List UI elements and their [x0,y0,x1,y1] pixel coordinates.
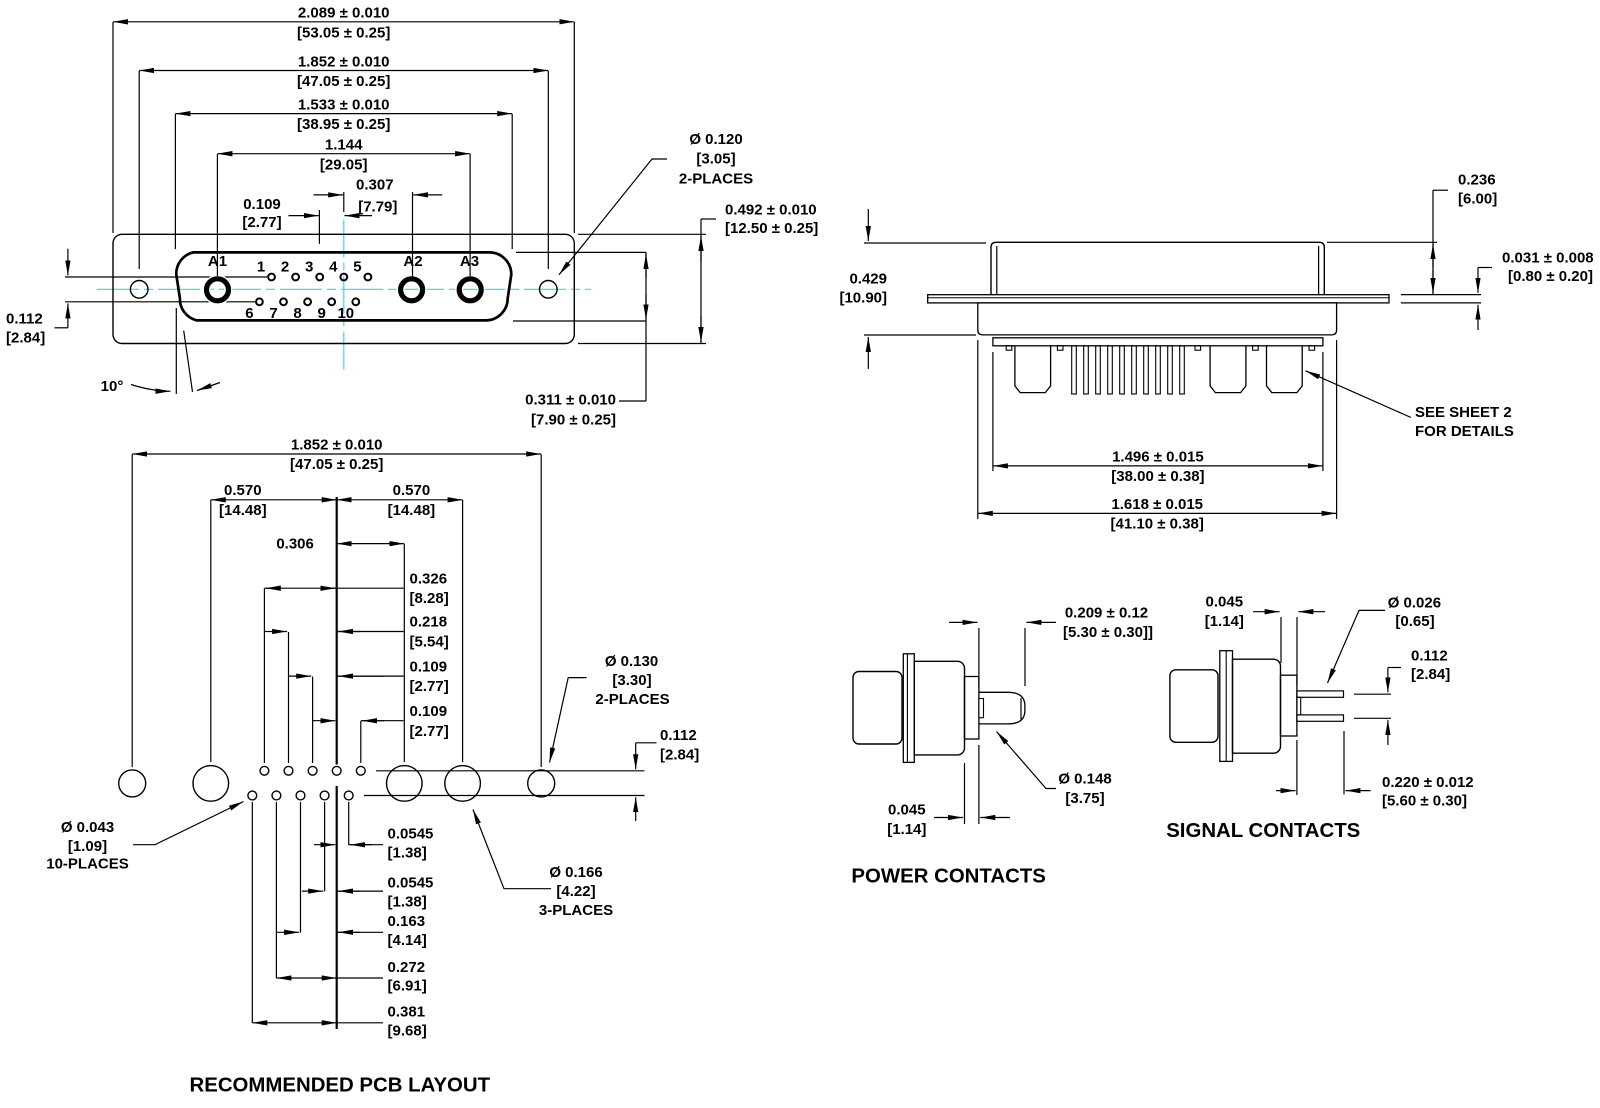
signal contact pin 9 [328,298,335,305]
pcb signal hole 1 [260,766,269,775]
dim 0.570 left [210,500,212,762]
svg-text:1.144: 1.144 [325,137,363,154]
dim 0.045 power neck [964,763,966,824]
insert tab [1006,346,1012,350]
power contact A1 [207,279,229,301]
pcb signal hole 6 [248,791,257,800]
svg-text:0.209 ± 0.12: 0.209 ± 0.12 [1065,604,1148,621]
svg-text:0.311 ± 0.010: 0.311 ± 0.010 [525,392,616,409]
left mounting hole [130,281,148,299]
svg-text:2.089 ± 0.010: 2.089 ± 0.010 [298,5,390,22]
dim 0.236 shell height above flange [1327,241,1437,243]
dim 1.852 mounting hole spacing [138,71,140,269]
pcb signal hole 5 [356,766,365,775]
side view insert [993,338,1323,346]
insert tab [1253,346,1259,350]
power contact tail A3 [1267,346,1303,393]
D-shell cutout [176,252,511,320]
svg-text:[41.10 ± 0.38]: [41.10 ± 0.38] [1111,515,1204,532]
svg-text:[5.60 ± 0.30]: [5.60 ± 0.30] [1382,792,1467,809]
pcb power hole A1 [193,766,229,802]
svg-text:[4.22]: [4.22] [556,883,595,900]
svg-text:0.306: 0.306 [276,535,314,552]
svg-text:Ø 0.043: Ø 0.043 [61,819,114,836]
svg-text:[1.14]: [1.14] [887,821,926,838]
pcb power hole A3 [445,766,481,802]
svg-text:0.045: 0.045 [888,802,926,819]
power contact flange disc [903,654,914,763]
face vertical centerline [343,220,345,371]
svg-text:[47.05 ± 0.25]: [47.05 ± 0.25] [297,73,390,90]
signal pin tail 8 [1156,346,1161,394]
dim 0.109 pin3 to center [318,210,320,244]
pcb signal hole 4 [332,766,341,775]
power contact tail A1 [1015,346,1051,393]
svg-text:Ø 0.026: Ø 0.026 [1388,595,1441,612]
svg-text:0.326: 0.326 [410,570,448,587]
svg-text:0.112: 0.112 [660,727,697,744]
dim 0.272 pin7-center [276,977,336,979]
pcb signal hole 8 [296,791,305,800]
svg-text:Ø 0.148: Ø 0.148 [1058,770,1111,787]
svg-text:10°: 10° [101,378,124,395]
svg-text:0.045: 0.045 [1206,594,1244,611]
svg-text:4: 4 [329,259,338,276]
dim 0.163 pin8-center [277,931,299,933]
power contact tail A2 [1210,346,1246,393]
svg-text:[29.05]: [29.05] [320,156,368,173]
svg-text:0.220 ± 0.012: 0.220 ± 0.012 [1382,774,1474,791]
svg-text:[2.84]: [2.84] [1411,666,1450,683]
signal pin tail 5 [1120,346,1125,394]
dim 0.109 center-pin5 [360,721,362,763]
svg-text:[38.95 ± 0.25]: [38.95 ± 0.25] [297,116,390,133]
dim 0.381 pin6-center [252,1022,336,1024]
svg-text:[12.50 ± 0.25]: [12.50 ± 0.25] [725,220,818,237]
svg-text:[14.48]: [14.48] [219,502,267,519]
row extension lines [65,276,267,278]
svg-text:3-PLACES: 3-PLACES [539,902,613,919]
dim 0.326 [263,589,265,764]
svg-text:[2.84]: [2.84] [6,330,45,347]
side view flange plate [928,295,1389,303]
svg-text:0.109: 0.109 [410,658,448,675]
pcb right mounting hole [528,770,555,797]
svg-text:0.492 ± 0.010: 0.492 ± 0.010 [725,202,817,219]
dim 0.112 row offset left [67,249,69,276]
dim 0.311 shell height [516,251,646,253]
dim 0.109 pin3-center [312,677,314,764]
ext lines bottom row [251,802,253,1023]
svg-text:3: 3 [305,259,313,276]
pcb left mounting hole [119,770,146,797]
dim 0.209 power tail length [978,628,980,687]
face horizontal centerline [97,288,591,290]
svg-text:[8.28]: [8.28] [410,590,449,607]
signal pin tail 7 [1144,346,1149,394]
dim 1.618 [977,340,979,519]
signal contact pin 1 [268,274,275,281]
signal pin tail 1 [1072,346,1077,394]
dim 1.852 pcb [131,455,133,768]
svg-text:0.109: 0.109 [243,196,281,213]
svg-text:SIGNAL CONTACTS: SIGNAL CONTACTS [1166,820,1360,842]
pcb signal hole 10 [344,791,353,800]
dim 0.0545 center-pin10 [314,844,335,846]
svg-text:RECOMMENDED PCB LAYOUT: RECOMMENDED PCB LAYOUT [190,1075,491,1097]
svg-text:[2.77]: [2.77] [410,723,449,740]
svg-text:SEE SHEET 2: SEE SHEET 2 [1415,404,1512,421]
insert tab [1195,346,1201,350]
signal contact neck [1281,675,1297,736]
svg-text:5: 5 [353,259,361,276]
svg-text:[7.90 ± 0.25]: [7.90 ± 0.25] [531,411,616,428]
signal contact body [1170,670,1218,743]
svg-text:[7.79]: [7.79] [358,199,397,216]
svg-text:Ø 0.166: Ø 0.166 [549,864,602,881]
pcb signal hole 9 [320,791,329,800]
signal contact pin 3 [316,274,323,281]
svg-text:[6.91]: [6.91] [388,978,427,995]
svg-text:0.031 ± 0.008: 0.031 ± 0.008 [1502,249,1594,266]
power contact body [853,672,902,745]
svg-text:0.307: 0.307 [356,176,394,193]
signal pin tail 4 [1108,346,1113,394]
dim 0.031 plate thickness [1401,294,1481,296]
svg-text:10-PLACES: 10-PLACES [46,856,129,873]
right mounting hole [540,281,558,299]
svg-text:[2.77]: [2.77] [410,678,449,695]
svg-text:0.272: 0.272 [388,959,426,976]
svg-text:[1.38]: [1.38] [388,845,427,862]
dim 0.429 [864,242,986,244]
svg-text:0.429: 0.429 [849,271,887,288]
svg-text:POWER CONTACTS: POWER CONTACTS [851,866,1045,888]
svg-text:[14.48]: [14.48] [388,502,436,519]
dim 0.306 center to A2 [403,544,405,762]
dim 0.112 tine spacing [1354,693,1391,695]
pcb vertical centerline [336,497,338,765]
svg-text:0.112: 0.112 [1411,647,1448,664]
svg-text:[1.14]: [1.14] [1205,613,1244,630]
svg-text:0.109: 0.109 [410,703,448,720]
svg-text:[5.30 ± 0.30]]: [5.30 ± 0.30]] [1063,624,1153,641]
signal contact fork tine top [1297,691,1344,697]
pcb power hole A2 [387,766,423,802]
svg-text:Ø 0.120: Ø 0.120 [689,131,742,148]
power contact barrel [914,661,964,755]
power contact A2 [401,279,423,301]
dim 0.220 tine length [1343,731,1345,794]
svg-text:2-PLACES: 2-PLACES [679,170,753,187]
svg-text:0.218: 0.218 [410,614,448,631]
signal contact barrel [1233,659,1281,753]
svg-text:[6.00]: [6.00] [1458,191,1497,208]
svg-text:0.570: 0.570 [393,482,431,499]
svg-text:[4.14]: [4.14] [388,932,427,949]
signal contact pin 4 [340,274,347,281]
svg-text:1.496 ± 0.015: 1.496 ± 0.015 [1112,448,1204,465]
svg-text:[53.05 ± 0.25]: [53.05 ± 0.25] [297,24,390,41]
svg-text:0.112: 0.112 [6,311,43,328]
power contact neck [965,677,979,740]
svg-text:[38.00 ± 0.38]: [38.00 ± 0.38] [1111,468,1204,485]
svg-text:1.852 ± 0.010: 1.852 ± 0.010 [298,53,390,70]
svg-text:9: 9 [318,305,326,322]
svg-text:[3.30]: [3.30] [612,672,651,689]
side view body [978,303,1337,335]
dim 0.045 signal neck [1280,617,1282,663]
signal contact pin 2 [292,274,299,281]
svg-text:[0.80 ± 0.20]: [0.80 ± 0.20] [1508,268,1593,285]
signal contact pin 6 [256,298,263,305]
svg-text:[0.65]: [0.65] [1395,613,1434,630]
connector flange outline [113,234,574,343]
svg-text:[3.75]: [3.75] [1065,790,1104,807]
dim 2.089 overall width [112,22,114,233]
svg-text:[1.38]: [1.38] [388,893,427,910]
svg-text:0.381: 0.381 [388,1004,426,1021]
pcb signal hole 2 [284,766,293,775]
svg-text:1.618 ± 0.015: 1.618 ± 0.015 [1111,496,1203,513]
svg-text:[1.09]: [1.09] [68,838,107,855]
signal contact web [1297,697,1301,715]
pcb signal hole 3 [308,766,317,775]
signal pin tail 2 [1084,346,1089,394]
signal contact fork tine bottom [1297,715,1344,721]
svg-text:FOR DETAILS: FOR DETAILS [1415,423,1514,440]
svg-text:0.0545: 0.0545 [388,826,434,843]
svg-text:[5.54]: [5.54] [410,634,449,651]
svg-text:[2.77]: [2.77] [242,214,281,231]
signal pin tail 6 [1132,346,1137,394]
svg-text:[2.84]: [2.84] [660,746,699,763]
pcb signal hole 7 [272,791,281,800]
svg-text:0.236: 0.236 [1458,172,1496,189]
svg-text:7: 7 [269,305,277,322]
svg-text:0.0545: 0.0545 [388,875,434,892]
dim 0.0545 pin9-center [302,890,323,892]
svg-text:1.533 ± 0.010: 1.533 ± 0.010 [298,96,390,113]
svg-text:0.570: 0.570 [224,482,262,499]
signal pin tail 10 [1180,346,1185,394]
svg-text:1: 1 [257,259,265,276]
dim 0.112 pcb right [376,770,645,772]
signal pin tail 3 [1096,346,1101,394]
dim 0.307 center to A2 [343,192,345,212]
signal contact pin 7 [280,298,287,305]
insert tab [1057,346,1063,350]
svg-text:[47.05 ± 0.25]: [47.05 ± 0.25] [290,456,383,473]
dim 0.492 flange height [578,233,706,235]
svg-text:[3.05]: [3.05] [696,151,735,168]
svg-text:2-PLACES: 2-PLACES [595,691,669,708]
signal contact pin 5 [365,274,372,281]
svg-text:Ø 0.130: Ø 0.130 [605,653,658,670]
svg-text:6: 6 [245,305,253,322]
dim 0.570 right [462,500,464,762]
signal contact pin 8 [304,298,311,305]
svg-text:8: 8 [293,305,301,322]
svg-text:0.163: 0.163 [388,913,426,930]
svg-text:[10.90]: [10.90] [839,290,887,307]
signal contact flange disc [1220,651,1233,762]
side view shell [991,242,1324,294]
dim 0.218 [288,632,290,763]
dim 1.144 A1-A3 spacing [216,154,218,276]
dim 1.496 [992,352,994,471]
insert tab [1309,346,1315,350]
signal pin tail 9 [1168,346,1173,394]
svg-text:2: 2 [281,259,289,276]
dim 1.533 shell width [174,114,176,249]
power contact A3 [459,279,481,301]
power contact solder tail [979,692,1025,724]
svg-text:10: 10 [337,305,354,322]
svg-text:[9.68]: [9.68] [388,1022,427,1039]
signal contact pin 10 [352,298,359,305]
svg-text:1.852 ± 0.010: 1.852 ± 0.010 [291,437,383,454]
